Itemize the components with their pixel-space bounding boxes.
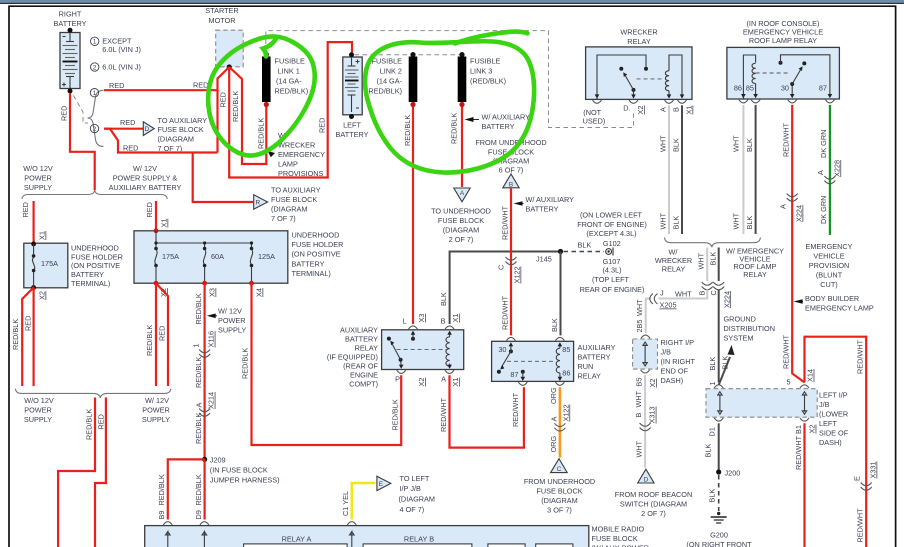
svg-text:SUPPLY: SUPPLY: [24, 415, 52, 424]
svg-text:(ON POSITIVE: (ON POSITIVE: [292, 250, 341, 259]
svg-text:X2: X2: [648, 379, 657, 388]
svg-text:87: 87: [819, 84, 827, 93]
top window bar: [0, 0, 904, 3]
svg-text:WHT: WHT: [634, 440, 643, 457]
svg-text:LINK 2: LINK 2: [380, 67, 402, 76]
svg-text:RED/BLK: RED/BLK: [449, 113, 458, 144]
svg-text:RIGHT I/P: RIGHT I/P: [661, 338, 695, 347]
svg-text:FROM UNDERHOOD: FROM UNDERHOOD: [475, 138, 546, 147]
svg-text:RELAY: RELAY: [627, 37, 651, 46]
svg-text:POWER SUPPLY &: POWER SUPPLY &: [113, 174, 178, 183]
svg-text:(W/ AUX POWER: (W/ AUX POWER: [592, 544, 650, 547]
svg-text:J/B: J/B: [661, 348, 672, 357]
svg-text:JUMPER HARNESS): JUMPER HARNESS): [210, 475, 280, 484]
svg-text:FUSE BLOCK: FUSE BLOCK: [536, 487, 582, 496]
svg-text:RIGHT: RIGHT: [59, 10, 82, 19]
svg-text:RED/BLK: RED/BLK: [145, 325, 154, 356]
brace W/O 12V / W 12V lower: [15, 389, 170, 398]
fuse 125A: [251, 243, 253, 248]
wire ORG 86 down to C triangle: [559, 387, 562, 457]
wire RED branch 1 to starter: [104, 89, 218, 91]
svg-text:RED/WHT: RED/WHT: [500, 295, 509, 330]
svg-text:FUSE HOLDER: FUSE HOLDER: [71, 252, 123, 261]
node circle 1: [90, 89, 98, 97]
svg-text:FRONT OF ENGINE): FRONT OF ENGINE): [577, 220, 647, 229]
connector C X122: [506, 257, 517, 265]
svg-text:PROVISIONS: PROVISIONS: [278, 169, 324, 178]
svg-text:D9: D9: [194, 510, 203, 519]
svg-text:6.0L (VIN J): 6.0L (VIN J): [102, 62, 141, 71]
node circle 2: [90, 124, 98, 132]
svg-text:E: E: [379, 481, 383, 488]
svg-text:X228: X228: [832, 160, 841, 177]
svg-text:RED/BLK: RED/BLK: [84, 409, 93, 440]
svg-text:1: 1: [93, 39, 97, 46]
triangle A to underhood fuse block: [454, 188, 470, 202]
svg-text:TO AUXILIARY: TO AUXILIARY: [271, 186, 321, 195]
dashed link from left battery to FL2 FL3: [355, 54, 463, 56]
svg-text:RED/WHT: RED/WHT: [782, 334, 791, 369]
svg-text:FUSE BLOCK: FUSE BLOCK: [158, 125, 204, 134]
svg-text:X2: X2: [636, 106, 645, 115]
svg-text:FUSE HOLDER: FUSE HOLDER: [292, 240, 344, 249]
svg-text:DASH): DASH): [819, 438, 842, 447]
svg-text:85: 85: [562, 345, 570, 354]
svg-text:RED/BLK: RED/BLK: [231, 91, 240, 122]
svg-text:I/P J/B: I/P J/B: [400, 484, 421, 493]
svg-text:ROOF LAMP RELAY: ROOF LAMP RELAY: [749, 36, 817, 45]
wire RED/BLK from small holder X2: [22, 288, 33, 387]
svg-text:(EXCEPT 4.3L): (EXCEPT 4.3L): [586, 229, 636, 238]
svg-text:BLK: BLK: [708, 489, 717, 503]
svg-text:RELAY B: RELAY B: [404, 535, 434, 544]
svg-text:BATTERY: BATTERY: [54, 19, 87, 28]
wire BLK wrecker B down: [681, 105, 683, 234]
svg-text:A: A: [779, 204, 788, 209]
svg-text:D: D: [644, 477, 649, 484]
svg-text:6.0L (VIN J): 6.0L (VIN J): [102, 45, 141, 54]
svg-text:RED/BLK: RED/BLK: [11, 319, 20, 350]
svg-text:C: C: [557, 466, 562, 473]
relay U5 roof lamp relay: [727, 47, 840, 99]
wire C1 YEL to E triangle: [352, 483, 376, 520]
svg-text:DK GRN: DK GRN: [819, 196, 828, 224]
svg-text:BLK: BLK: [550, 318, 559, 332]
fusible link FL1: [264, 52, 269, 57]
svg-text:(ON RIGHT FRONT: (ON RIGHT FRONT: [686, 540, 752, 547]
relay A sub box: [244, 544, 348, 547]
svg-text:RED/BLK: RED/BLK: [194, 293, 203, 324]
triangle C from underhood fuse block: [551, 459, 568, 473]
svg-text:POWER: POWER: [218, 316, 246, 325]
svg-text:BLK: BLK: [745, 138, 754, 152]
svg-text:BLK: BLK: [721, 356, 730, 370]
svg-text:UNDERHOOD: UNDERHOOD: [71, 244, 119, 253]
svg-text:RED: RED: [219, 92, 228, 107]
svg-text:AUXILIARY BATTERY: AUXILIARY BATTERY: [109, 183, 182, 192]
relay U2 internals: [411, 337, 415, 341]
relay B sub box: [363, 544, 472, 547]
svg-text:BLK: BLK: [439, 292, 448, 306]
battery B1 right battery: [60, 28, 80, 94]
svg-text:RED/WHT: RED/WHT: [511, 392, 520, 427]
ground distribution system branch: [719, 357, 730, 385]
svg-text:J145: J145: [536, 255, 552, 264]
svg-text:RED: RED: [60, 106, 69, 121]
svg-text:SYSTEM: SYSTEM: [724, 334, 754, 343]
svg-text:RED/BLK: RED/BLK: [256, 118, 265, 149]
svg-text:WHT: WHT: [675, 289, 692, 298]
svg-text:(LOWER: (LOWER: [819, 410, 848, 419]
svg-text:(IF EQUIPPED): (IF EQUIPPED): [327, 353, 378, 362]
svg-text:X205: X205: [660, 301, 677, 310]
green highlight circle around fusible links 2 and 3: [365, 41, 534, 172]
svg-text:RED/BLK: RED/BLK: [241, 348, 250, 379]
svg-text:A: A: [460, 190, 465, 197]
svg-text:A: A: [441, 375, 446, 384]
battery B2 left battery: [343, 52, 362, 119]
wire RED/BLK FL3 down to A triangle: [461, 107, 463, 187]
svg-text:30: 30: [498, 345, 506, 354]
svg-text:RED/BLK): RED/BLK): [368, 87, 402, 96]
svg-text:DK GRN: DK GRN: [819, 130, 828, 158]
svg-text:RED: RED: [145, 202, 154, 217]
svg-text:BATTERY: BATTERY: [336, 130, 369, 139]
svg-text:LEFT: LEFT: [819, 419, 837, 428]
svg-text:RELAY: RELAY: [578, 372, 602, 381]
svg-text:(IN RIGHT: (IN RIGHT: [661, 357, 696, 366]
svg-text:86: 86: [734, 84, 742, 93]
svg-text:85: 85: [746, 84, 754, 93]
svg-text:C: C: [709, 290, 718, 295]
svg-text:3 OF 7): 3 OF 7): [547, 506, 572, 515]
svg-text:B: B: [509, 181, 513, 188]
svg-text:2: 2: [93, 64, 97, 71]
connector E X331: [861, 483, 872, 491]
svg-text:C1 YEL: C1 YEL: [341, 491, 350, 516]
svg-text:RED: RED: [158, 326, 167, 341]
svg-text:TERMINAL): TERMINAL): [71, 279, 110, 288]
svg-text:WHT: WHT: [697, 252, 706, 269]
svg-text:(DIAGRAM: (DIAGRAM: [443, 226, 480, 235]
wire RED/WHT X14 up and over to right edge: [805, 337, 867, 547]
svg-text:WHT: WHT: [732, 212, 741, 229]
wire RED/WHT relay A to 87 U-link: [450, 375, 524, 447]
connector A X224 on red/wht: [787, 194, 798, 202]
svg-text:BATTERY: BATTERY: [71, 270, 104, 279]
fusible link FL3: [459, 52, 464, 57]
svg-text:X1: X1: [451, 378, 460, 387]
svg-text:X331: X331: [869, 461, 878, 478]
svg-text:(ON POSITIVE: (ON POSITIVE: [71, 261, 120, 270]
svg-text:WHT: WHT: [732, 135, 741, 152]
svg-text:1: 1: [191, 343, 200, 347]
dashed lead from battery to brace: [74, 96, 89, 124]
svg-text:175A: 175A: [41, 259, 58, 268]
svg-text:R: R: [256, 200, 261, 207]
svg-text:POWER: POWER: [142, 406, 170, 415]
svg-text:UNDERHOOD: UNDERHOOD: [292, 231, 340, 240]
wire WHT merged down to X224 B: [706, 248, 708, 282]
svg-text:LINK 3: LINK 3: [470, 67, 492, 76]
mobile radio fuse block box: [145, 526, 589, 547]
svg-text:RELAY: RELAY: [662, 265, 686, 274]
underhood fuse holder (big): [134, 231, 288, 283]
wire RED/BLK X3 with connectors down to J209: [204, 283, 206, 459]
svg-text:X224: X224: [795, 205, 804, 222]
svg-text:X2: X2: [38, 291, 47, 300]
svg-text:B: B: [441, 317, 446, 326]
wire RED vertical from starter junction: [216, 90, 218, 152]
svg-text:RED: RED: [193, 81, 208, 90]
svg-text:BLK: BLK: [704, 444, 713, 458]
wire RED branch 2 staircase to R triangle: [104, 129, 253, 202]
wire BLK J145 down to 85: [560, 252, 562, 336]
svg-text:J200: J200: [725, 469, 741, 478]
svg-text:(14 GA-: (14 GA-: [376, 77, 402, 86]
svg-text:X4: X4: [255, 288, 264, 297]
wire WHT wrecker A down: [668, 105, 670, 234]
wire RED/WHT left ip jb B1 down: [800, 418, 809, 421]
connector A X214: [199, 409, 210, 417]
svg-text:RELAY A: RELAY A: [282, 535, 312, 544]
svg-text:X1: X1: [685, 106, 694, 115]
svg-text:X14: X14: [806, 369, 815, 382]
svg-text:X214: X214: [207, 392, 216, 409]
note W/ 12V POWER SUPPLY arrow: [207, 314, 216, 319]
svg-text:X122: X122: [513, 266, 522, 283]
svg-text:RED/WHT: RED/WHT: [782, 122, 791, 157]
svg-text:FUSE BLOCK: FUSE BLOCK: [438, 216, 484, 225]
svg-text:W/ 12V: W/ 12V: [133, 164, 157, 173]
wire RED/BLK J209 to D9: [204, 459, 206, 519]
svg-text:2: 2: [93, 126, 97, 133]
svg-text:RED/BLK: RED/BLK: [194, 413, 203, 444]
svg-text:BATTERY: BATTERY: [578, 353, 611, 362]
svg-text:(DIAGRAM: (DIAGRAM: [541, 496, 578, 505]
svg-text:TO LEFT: TO LEFT: [400, 474, 430, 483]
svg-text:TO UNDERHOOD: TO UNDERHOOD: [431, 207, 491, 216]
svg-text:RED/WHT: RED/WHT: [856, 508, 865, 543]
triangle D to auxiliary fuse block: [143, 122, 154, 136]
svg-text:FROM UNDERHOOD: FROM UNDERHOOD: [524, 477, 595, 486]
svg-text:RELAY: RELAY: [743, 270, 767, 279]
svg-text:RED/BLK: RED/BLK: [194, 357, 203, 388]
svg-text:AUXILIARY: AUXILIARY: [340, 326, 378, 335]
wire RED/WHT B triangle to relay 30: [510, 188, 512, 336]
svg-text:P: P: [395, 375, 400, 384]
relay U4 wrecker relay: [586, 47, 692, 100]
svg-text:FUSE BLOCK: FUSE BLOCK: [271, 195, 317, 204]
svg-text:COMPT): COMPT): [349, 380, 378, 389]
svg-text:W/O 12V: W/O 12V: [23, 164, 53, 173]
svg-text:EMERGENCY: EMERGENCY: [278, 150, 325, 159]
svg-text:W/O 12V: W/O 12V: [24, 396, 54, 405]
svg-text:SWITCH (DIAGRAM: SWITCH (DIAGRAM: [620, 500, 687, 509]
wire RED/WHT roof 30 down to X14: [792, 105, 804, 383]
svg-text:LEFT I/P: LEFT I/P: [819, 391, 848, 400]
svg-text:DASH): DASH): [661, 376, 684, 385]
svg-text:1: 1: [93, 90, 97, 97]
svg-text:(TOP LEFT: (TOP LEFT: [592, 275, 630, 284]
svg-text:X3: X3: [417, 314, 426, 323]
dashed engine-compartment box: [266, 31, 634, 128]
triangle E to left ip jb: [377, 476, 391, 490]
svg-text:W/ 12V: W/ 12V: [218, 307, 242, 316]
svg-text:FROM ROOF BEACON: FROM ROOF BEACON: [615, 490, 692, 499]
svg-text:B9: B9: [157, 511, 166, 520]
svg-text:125A: 125A: [258, 252, 275, 261]
dashed BLK to G102 ground: [564, 251, 605, 253]
svg-text:POWER: POWER: [24, 174, 52, 183]
svg-text:STARTER: STARTER: [205, 6, 238, 15]
svg-text:W/ AUXILIARY: W/ AUXILIARY: [526, 195, 575, 204]
svg-text:2 OF 7): 2 OF 7): [641, 509, 666, 518]
svg-text:X2: X2: [808, 425, 817, 434]
svg-text:X116: X116: [207, 331, 216, 348]
svg-text:PROVISION: PROVISION: [809, 261, 850, 270]
svg-text:BATTERY: BATTERY: [482, 122, 515, 131]
svg-text:30: 30: [781, 84, 789, 93]
svg-text:ENGINE: ENGINE: [350, 371, 378, 380]
fuse 175A small: [33, 244, 35, 255]
svg-text:BATTERY: BATTERY: [526, 205, 559, 214]
junction J209: [202, 457, 207, 462]
relay U2 auxiliary battery relay: [382, 330, 464, 370]
svg-text:(BLUNT: (BLUNT: [816, 271, 843, 280]
svg-text:2B5: 2B5: [635, 320, 644, 333]
svg-text:VEHICLE: VEHICLE: [813, 252, 844, 261]
right ip jb box: [641, 335, 650, 338]
svg-text:WHT: WHT: [634, 390, 643, 407]
sub box d: [536, 544, 573, 547]
svg-text:(DIAGRAM: (DIAGRAM: [158, 135, 195, 144]
legend circle 1: [91, 37, 99, 45]
svg-text:X3: X3: [208, 288, 217, 297]
svg-text:X2: X2: [417, 378, 426, 387]
svg-text:B: B: [634, 413, 643, 418]
wire RED branch 2: [104, 128, 143, 130]
svg-text:RED/WHT: RED/WHT: [856, 339, 865, 374]
svg-text:WRECKER: WRECKER: [278, 141, 315, 150]
svg-text:1: 1: [708, 381, 717, 385]
wire WHT roof 86 down: [742, 105, 744, 234]
svg-text:4 OF 7): 4 OF 7): [400, 505, 425, 514]
svg-text:ORG: ORG: [549, 436, 558, 453]
left ip jb box: [714, 385, 723, 388]
svg-text:(ON LOWER LEFT: (ON LOWER LEFT: [580, 210, 643, 219]
svg-text:WHT: WHT: [658, 212, 667, 229]
svg-text:FUSIBLE: FUSIBLE: [372, 57, 403, 66]
svg-text:BLK: BLK: [708, 252, 717, 266]
svg-text:POWER: POWER: [24, 406, 52, 415]
svg-text:RED/BLK: RED/BLK: [194, 474, 203, 505]
svg-text:USED): USED): [583, 116, 606, 125]
svg-text:D: D: [145, 126, 150, 133]
svg-text:D.: D.: [623, 104, 630, 113]
svg-text:(DIAGRAM: (DIAGRAM: [271, 205, 308, 214]
alternative brace: [88, 90, 104, 146]
svg-text:BODY BUILDER: BODY BUILDER: [805, 294, 859, 303]
svg-text:FUSIBLE: FUSIBLE: [275, 57, 306, 66]
svg-text:RED/BLK: RED/BLK: [403, 115, 412, 146]
svg-text:A: A: [816, 170, 825, 175]
svg-text:2 OF 7): 2 OF 7): [449, 235, 474, 244]
svg-text:5: 5: [787, 378, 791, 387]
svg-text:(REAR OF: (REAR OF: [343, 362, 378, 371]
svg-text:7 OF 7): 7 OF 7): [271, 214, 296, 223]
note BODY BUILDER EMERGENCY LAMP: [794, 299, 803, 304]
svg-text:WHT: WHT: [658, 135, 667, 152]
sub box c: [488, 544, 525, 547]
svg-text:RED/WHT: RED/WHT: [500, 205, 509, 240]
svg-text:LAMP: LAMP: [278, 160, 298, 169]
connector X224 pair: [702, 282, 713, 290]
svg-text:X1: X1: [160, 219, 169, 228]
merge brace wrecker/roof wires: [665, 238, 761, 248]
svg-text:RED: RED: [317, 118, 326, 133]
fusible link FL2: [410, 52, 415, 57]
starter motor box: [216, 30, 244, 67]
svg-text:GROUND: GROUND: [724, 315, 756, 324]
svg-text:RED: RED: [96, 414, 105, 429]
wire RED/BLK starter to fusible link 1: [229, 67, 266, 164]
wire RED below lower brace staircase: [95, 398, 106, 547]
svg-text:FUSE BLOCK: FUSE BLOCK: [592, 534, 638, 543]
svg-text:87: 87: [510, 370, 518, 379]
svg-text:EMERGENCY: EMERGENCY: [805, 242, 852, 251]
wire RED starter to branch1: [218, 67, 230, 91]
svg-text:(IN FUSE BLOCK: (IN FUSE BLOCK: [210, 465, 268, 474]
wire BLK merged down to X224 C: [718, 248, 720, 282]
wire RED/BLK J209 to B9: [168, 459, 205, 519]
wire BLK relay B to J145: [450, 252, 558, 325]
svg-text:BLK: BLK: [745, 216, 754, 230]
underhood fuse holder (small): [24, 243, 68, 288]
svg-text:B1: B1: [794, 425, 803, 434]
svg-text:E: E: [853, 476, 862, 481]
svg-text:BATTERY: BATTERY: [292, 259, 325, 268]
wire WHT to X205 and right ip jb: [646, 290, 708, 334]
svg-text:ORG: ORG: [549, 387, 558, 404]
dashed BLK J200 to G200: [718, 475, 720, 511]
svg-text:CUT): CUT): [820, 280, 837, 289]
wire DK GRN roof 87 down blunt cut: [829, 105, 831, 235]
svg-text:J: J: [660, 289, 664, 298]
wire BLK X224 down to left ip jb: [718, 290, 720, 383]
svg-text:(14 GA-: (14 GA-: [276, 77, 302, 86]
svg-text:REAR OF ENGINE): REAR OF ENGINE): [580, 285, 645, 294]
wire RED/BLK from big holder X2: [155, 283, 157, 386]
svg-text:RED/BLK): RED/BLK): [275, 87, 309, 96]
svg-text:60A: 60A: [211, 252, 224, 261]
svg-text:86: 86: [562, 369, 570, 378]
svg-text:J209: J209: [210, 455, 226, 464]
svg-text:SUPPLY: SUPPLY: [218, 326, 246, 335]
triangle R to auxiliary fuse block: [254, 195, 268, 210]
svg-text:W/ AUXILIARY: W/ AUXILIARY: [482, 112, 531, 121]
svg-text:B: B: [672, 107, 681, 112]
wire RED/BLK FL2 down to relay L terminal: [412, 107, 414, 324]
svg-text:RED: RED: [21, 202, 30, 217]
svg-text:TERMINAL): TERMINAL): [292, 269, 331, 278]
svg-text:MOTOR: MOTOR: [208, 16, 235, 25]
wire RED from small holder X2: [32, 288, 34, 387]
svg-text:(4.3L): (4.3L): [602, 266, 621, 275]
green highlight circle around fusible link 1: [208, 36, 315, 155]
legend circle 2: [91, 63, 99, 71]
svg-text:TO AUXILIARY: TO AUXILIARY: [158, 116, 208, 125]
